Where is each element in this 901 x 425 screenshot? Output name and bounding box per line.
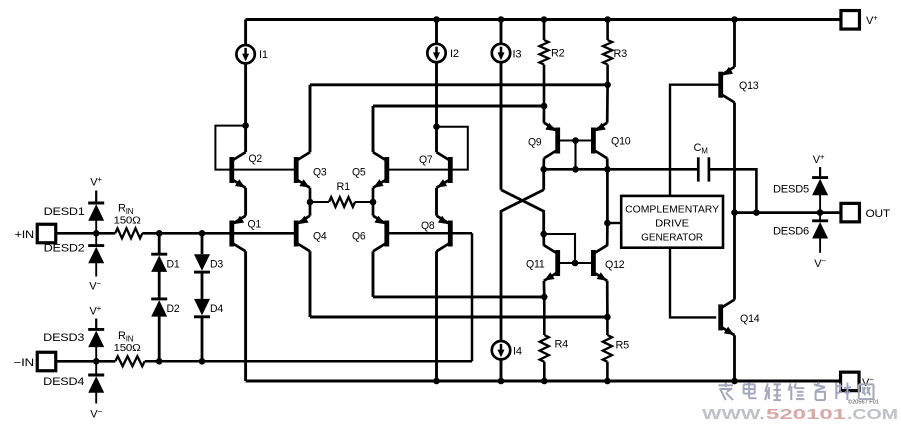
-IN terminal [14,352,56,371]
svg-text:150Ω: 150Ω [114,343,141,354]
wire Q11 collector [542,234,545,246]
wire routing line y106 to R2 [373,105,544,108]
wire +IN to D1 [158,233,161,254]
current source I3 [492,44,522,62]
wire drive generator to Q14 base [670,248,716,318]
junction V+ rail/I2 [433,16,440,23]
svg-text:520101: 520101 [766,406,846,423]
diode DESD5 [773,178,828,213]
svg-text:Q6: Q6 [352,231,366,243]
wire I2 to Q7 [435,62,438,126]
transistor Q12 [593,245,624,281]
svg-text:Q11: Q11 [526,259,545,271]
wire Q6 collector routing to R4 node [373,295,544,298]
svg-text:COMPLEMENTARY: COMPLEMENTARY [625,205,719,216]
junction V+ rail/Q13 [731,16,738,23]
current source I4 [492,341,522,359]
wire Q12 collector riser [606,223,609,246]
junction base coupler/CM line [572,166,579,173]
junction Q14 emitter/V- rail [731,378,738,385]
junction Q9 collector/CM line [540,166,547,173]
wire R4 top lead [543,297,546,335]
svg-text:Q1: Q1 [248,219,262,231]
junction -IN/DESD [93,358,100,365]
transistor Q9 [528,123,558,159]
transistor Q7 [419,152,450,188]
svg-text:Q13: Q13 [739,80,759,92]
junction R1 right node [370,199,377,206]
junction -IN/D2 [156,358,163,365]
svg-text:D4: D4 [210,303,223,315]
svg-text:DESD5: DESD5 [773,184,809,196]
resistor R1 [329,181,355,207]
wire Q6/Q8 base line to riser [387,232,472,235]
svg-text:I4: I4 [513,346,522,358]
diode DESD1 [44,203,105,233]
wire V+ rail to I1 [244,20,247,45]
OUT wire [735,211,842,214]
diode D3 [194,254,223,272]
diode DESD3 [43,329,104,361]
svg-text:Q14: Q14 [740,313,760,325]
wire -IN to RIN2 [56,360,116,363]
diode D1 [151,254,179,272]
wire Q13 collector to OUT [733,103,736,213]
figure label [848,399,879,406]
junction CM/OUT line [753,209,760,216]
junction OUT/DESD5 [817,209,824,216]
svg-text:Q12: Q12 [605,259,625,271]
junction V- rail/I4 [498,378,505,385]
V- symbol below DESD4 [90,407,102,421]
wire Q9/Q10 base coupler [574,141,576,170]
wire Q5/Q7 base line and Q7 diode loop [387,127,468,170]
wire Q2 emitter to Q1 emitter [244,188,247,216]
transistor Q6 [352,216,387,252]
wire Q8 base riser to -IN line [471,233,474,361]
junction +IN/D1 [156,230,163,237]
wire R3 to junction y84 [606,65,609,85]
wire Q7 collector stub [435,127,438,153]
junction R2/Q5 line/Q9 emitter [541,103,548,110]
junction Q11 collector/crossover [540,231,547,238]
wire R2 to junction y106 [543,65,546,107]
wire Q3 emitter to R1 left node [309,188,312,202]
wire I4 to V- rail [500,360,503,381]
wire Q11/Q12 base coupler [544,234,575,263]
wire Q3 collector riser [309,85,312,152]
svg-text:Q8: Q8 [421,220,435,232]
svg-text:I2: I2 [450,48,459,60]
V+ terminal [841,11,878,30]
svg-text:Q4: Q4 [313,231,327,243]
transistor Q13 [721,67,759,103]
wire Q14 emitter to V- rail [733,335,736,381]
current source I2 [427,44,459,62]
wire R1 left lead [310,201,329,203]
wire drive generator to Q13 base [670,85,719,196]
wire R3 junction to Q10 emitter [606,85,609,123]
wire Q5 collector riser [372,106,375,152]
wire I3 down to crossover [500,62,503,189]
resistor R3 [603,40,627,65]
watermark URL [702,406,898,423]
svg-text:WWW.: WWW. [702,406,765,423]
wire Q4 collector down [309,251,312,317]
V+ symbol above DESD5 [813,153,825,178]
svg-text:Q9: Q9 [528,137,542,149]
svg-text:D2: D2 [167,303,180,315]
junction Q12 emitter/Q4 line/R5 [604,314,611,321]
wire Q10 collector to CM line [606,158,609,169]
wire CM line left section [544,168,699,171]
diode D2 [151,299,179,317]
OUT terminal [841,203,891,222]
junction V+ rail/I3 [498,16,505,23]
transistor Q2 [232,152,262,188]
svg-text:D3: D3 [210,258,223,270]
junction +IN/D3 [199,230,206,237]
svg-text:D1: D1 [167,258,180,270]
junction Q13/Q14/OUT [731,209,738,216]
junction V- rail/R5 [604,378,611,385]
svg-text:.COM: .COM [847,406,898,423]
svg-text:R3: R3 [614,48,628,60]
resistor RIN (150 Ohm, +IN) [114,203,143,239]
resistor R4 [540,335,568,362]
transistor Q4 [296,216,326,252]
wire R5 top lead [606,317,609,335]
transistor Q11 [526,245,558,281]
diode D4 [194,299,223,317]
junction Q10 collector/CM line [604,166,611,173]
wire Q2 diode loop and Q2/Q3 base line [215,126,296,170]
junction Q11 emitter/Q6 line/R4 [541,294,548,301]
wire Q9 collector node down to crossover [542,169,545,190]
svg-text:DESD1: DESD1 [44,206,85,218]
wire R1 right node to Q6 emitter [372,202,375,216]
wire V+ rail to Q13 emitter [733,20,736,67]
wire R2 junction to Q9 emitter [543,106,546,123]
svg-text:150Ω: 150Ω [114,216,141,227]
V- rail (bottom supply wire) [246,380,841,383]
wire upper routing line y84 to R3 [310,83,608,86]
svg-text:OUT: OUT [866,208,891,220]
wire Q2 collector stub [244,126,247,153]
svg-text:Q5: Q5 [352,167,366,179]
svg-text:R1: R1 [337,181,351,193]
wire D3 to D4 [201,271,204,299]
diode DESD6 [773,213,828,253]
wire D2 to -IN line [158,316,161,362]
junction I1/Q2 base loop [242,122,249,129]
junction V- rail/Q8 collector [433,378,440,385]
svg-text:+IN: +IN [15,229,35,241]
capacitor CM [694,142,709,182]
wire crossover diagonal to I4 [501,190,544,341]
junction Q9/Q10 base line [572,137,579,144]
svg-text:R4: R4 [555,339,569,351]
wire Q10/Q12 link [606,169,609,223]
current source I1 [236,45,267,63]
wire RIN to Q1/Q4 bases [142,232,296,235]
svg-text:I3: I3 [513,49,522,61]
wire +IN to D3 [201,233,204,254]
svg-text:DESD3: DESD3 [43,332,84,344]
wire Q9 collector to CM node [542,158,545,169]
transistor Q3 [296,152,326,188]
watermark text (CJK site name) [718,383,873,401]
transistor Q1 [232,216,261,252]
wire RIN2 to Q8 base riser [145,360,472,363]
junction -IN/D4 [199,358,206,365]
junction R1 left node [307,199,314,206]
wire +IN to RIN [56,232,115,235]
svg-text:R2: R2 [551,48,565,60]
block U1 COMPLEMENTARY DRIVE GENERATOR [621,196,723,248]
V- symbol below DESD2 [89,279,101,293]
junction V+ rail/R2 [541,16,548,23]
wire V+ rail to R3 [606,20,609,41]
transistor Q8 [421,216,450,252]
wire Q12 emitter to R5 node [606,281,609,317]
V+ symbol above DESD1 [90,175,102,203]
resistor R5 [603,335,629,362]
wire R1 left node to Q4 emitter [309,202,312,216]
wire V+ rail to I2 [435,20,438,44]
junction Q11/Q12 base line [572,260,579,267]
wire Q8 collector to V- rail [435,251,438,381]
junction drive generator input [604,220,611,227]
wire Q11/Q12 base line [558,262,594,264]
resistor RIN (150 Ohm, -IN) [114,330,145,366]
wire Q9/Q10 base line [558,139,594,141]
V- symbol below DESD6 [814,257,826,271]
junction +IN/DESD [93,230,100,237]
resistor R2 [539,40,564,65]
svg-text:−IN: −IN [14,357,35,369]
diode DESD2 [44,233,105,276]
wire R5 to V- rail [606,362,609,381]
wire D4 to -IN line [201,316,204,362]
junction I2/Q7 base loop [433,123,440,130]
svg-text:R5: R5 [616,340,630,352]
svg-text:Q3: Q3 [313,167,327,179]
wire OUT to Q14 collector [733,213,736,300]
wire Q4 collector routing to R5 node [310,316,607,319]
wire Q7 emitter to Q8 emitter [435,188,438,216]
V+ rail (top supply wire) [246,18,841,21]
svg-text:Q7: Q7 [419,154,433,166]
svg-text:DRIVE: DRIVE [655,219,689,230]
transistor Q5 [352,152,387,188]
+IN terminal [15,224,56,243]
transistor Q14 [721,300,760,336]
svg-text:DESD6: DESD6 [773,226,809,238]
wire crossover diagonal I3 to Q11 node [501,190,544,234]
wire Q11 emitter to R4 node [543,281,546,297]
wire Q6 collector down [372,251,375,297]
wire V+ rail to R2 [543,20,546,41]
svg-text:Q2: Q2 [249,153,263,165]
svg-text:DESD4: DESD4 [43,376,84,388]
junction R3/Q3 line/Q10 emitter [604,82,611,89]
wire D1 to D2 [158,271,161,299]
diode DESD4 [43,361,104,403]
wire CM line right section [709,169,757,212]
svg-text:DESD2: DESD2 [44,243,85,255]
V- terminal [841,372,875,391]
svg-text:Q10: Q10 [611,136,631,148]
transistor Q10 [593,123,630,159]
wire R4 to V- rail [543,362,546,381]
svg-text:I1: I1 [259,49,268,61]
wire V+ rail to I3 [500,20,503,44]
wire to drive generator input [607,222,621,224]
wire Q1 collector to V- rail [244,251,247,381]
wire R1 right lead [355,201,373,203]
wire I1 to Q2 [244,64,247,126]
svg-text:GENERATOR: GENERATOR [641,232,703,243]
junction V+ rail/R3 [604,16,611,23]
wire Q5 emitter to R1 right node [372,188,375,202]
junction V- rail/R4 [541,378,548,385]
V+ symbol above DESD3 [89,304,101,330]
